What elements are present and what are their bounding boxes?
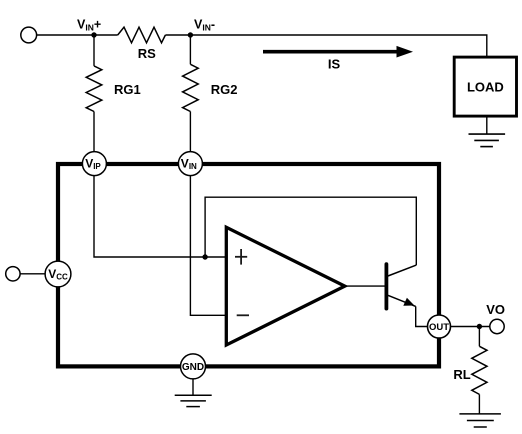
pin GND xyxy=(181,354,206,379)
resistor RG1 xyxy=(86,66,102,112)
ground (load) xyxy=(469,134,506,147)
svg-text:VO: VO xyxy=(486,302,505,317)
wire RG1 to VIP pin xyxy=(93,112,95,153)
wire GND pin to ground xyxy=(192,379,194,395)
svg-text:RL: RL xyxy=(453,367,470,382)
transistor Q1 xyxy=(386,264,416,308)
load block LOAD xyxy=(454,57,516,116)
ground (GND pin) xyxy=(175,395,212,406)
resistor RS xyxy=(118,27,166,43)
IC body U1 xyxy=(58,164,439,366)
wire VIN pin to opamp - input xyxy=(190,175,226,315)
wire opamp output to Q1 base xyxy=(345,285,385,287)
resistor RG2 xyxy=(183,64,199,111)
svg-text:OUT: OUT xyxy=(429,322,449,333)
wire input to RS xyxy=(37,34,118,36)
svg-text:RG2: RG2 xyxy=(211,82,238,97)
terminal VO xyxy=(490,319,504,333)
wire feedback from + input to Q1 collector xyxy=(205,197,416,265)
wire OUT pin to VO terminal xyxy=(451,326,490,328)
svg-text:RG1: RG1 xyxy=(114,82,141,97)
svg-text:LOAD: LOAD xyxy=(467,79,504,94)
wire Q1 emitter to OUT pin xyxy=(416,306,428,326)
opamp + symbol xyxy=(235,249,247,265)
wire VIP pin to opamp + input xyxy=(94,175,226,257)
node VO junction xyxy=(477,324,482,329)
wire RS to VIN- node xyxy=(165,34,190,36)
input terminal xyxy=(21,27,37,43)
wire RL to ground xyxy=(478,394,480,414)
wire VO node to RL xyxy=(478,327,480,347)
svg-text:VIN+: VIN+ xyxy=(77,18,101,33)
ground (RL) xyxy=(459,414,501,427)
svg-text:VIN-: VIN- xyxy=(194,18,215,33)
wire LOAD to ground xyxy=(486,116,488,134)
node VIN- xyxy=(188,32,193,37)
svg-text:GND: GND xyxy=(182,362,204,373)
opamp - symbol xyxy=(237,314,249,316)
wire VCC terminal to pin xyxy=(20,273,45,275)
svg-text:RS: RS xyxy=(138,46,156,61)
pin VCC xyxy=(45,261,71,287)
node feedback junction xyxy=(202,254,207,259)
node VIN+ xyxy=(91,32,96,37)
pin VIP xyxy=(82,152,106,176)
wire VIN- node to LOAD xyxy=(190,35,486,57)
terminal VCC xyxy=(6,267,20,281)
pin VIN xyxy=(178,152,202,176)
resistor RL xyxy=(472,346,487,394)
wire VIN- node to RG2 xyxy=(189,35,191,64)
pin OUT xyxy=(428,315,451,338)
op-amp U2 xyxy=(226,227,344,345)
wire VIN+ node to RG1 xyxy=(93,35,95,66)
wire RG2 to VIN pin xyxy=(189,112,191,153)
current arrow IS xyxy=(263,46,413,58)
svg-text:IS: IS xyxy=(328,57,341,72)
